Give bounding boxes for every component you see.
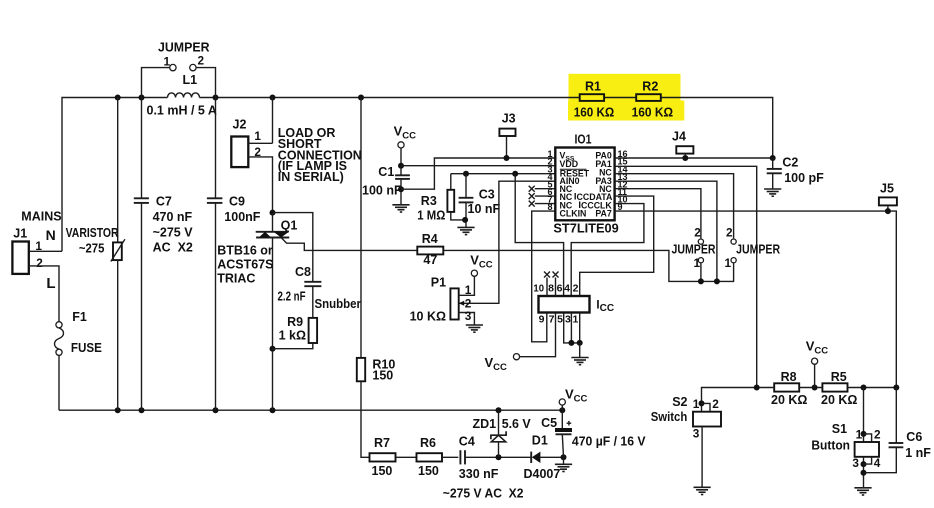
- svg-text:C9: C9: [229, 195, 245, 209]
- svg-text:N: N: [46, 227, 56, 243]
- connector J2 (load or short): [272, 98, 274, 144]
- svg-text:1: 1: [164, 55, 171, 69]
- svg-text:MAINS: MAINS: [21, 210, 61, 224]
- wire C4 to D1: [465, 456, 531, 458]
- svg-text:~275: ~275: [79, 242, 105, 256]
- svg-text:D4007: D4007: [524, 467, 561, 481]
- node jumper bus right: [714, 278, 720, 284]
- svg-text:R5: R5: [831, 370, 847, 384]
- svg-text:ACST67S: ACST67S: [217, 258, 273, 272]
- svg-text:1 nF: 1 nF: [905, 446, 931, 460]
- svg-text:F1: F1: [72, 310, 87, 324]
- svg-text:TRIAC: TRIAC: [217, 272, 255, 286]
- svg-text:9: 9: [539, 313, 545, 325]
- svg-text:Button: Button: [811, 439, 850, 453]
- P1 wiper arrow: [459, 301, 465, 306]
- wire ICC pin7 to VCC: [519, 313, 555, 357]
- svg-text:R6: R6: [420, 436, 436, 450]
- connector J4: [676, 146, 693, 153]
- svg-text:150: 150: [372, 369, 393, 383]
- wire C1 bottom to VSS row (IC pin1): [401, 158, 555, 189]
- wire AIN0 row (IC pin4) to P1 wiper: [459, 181, 555, 303]
- svg-text:ST7LITE09: ST7LITE09: [553, 221, 618, 236]
- svg-text:3: 3: [565, 313, 571, 325]
- capacitor C8 (snubber): [273, 213, 313, 282]
- ground below C3/R3: [457, 226, 474, 228]
- svg-text:C6: C6: [906, 430, 922, 444]
- button S1: [863, 388, 865, 443]
- svg-text:~275 V AC X2: ~275 V AC X2: [443, 487, 524, 501]
- svg-text:8: 8: [547, 202, 552, 212]
- node top bus R10 branch: [358, 95, 364, 101]
- svg-text:1: 1: [725, 256, 732, 270]
- inductor L1: [168, 93, 200, 98]
- svg-text:5.6 V: 5.6 V: [502, 417, 532, 431]
- wire VDD row (IC pin2): [401, 165, 555, 167]
- svg-text:C2: C2: [782, 156, 798, 170]
- node bottom bus varistor: [115, 407, 121, 413]
- resistor R10: [360, 98, 362, 358]
- node ZD1 bottom: [496, 454, 502, 460]
- svg-text:PA7: PA7: [595, 208, 612, 218]
- svg-text:C1: C1: [378, 165, 394, 179]
- left jumper (PA option): [698, 239, 703, 244]
- svg-text:4: 4: [564, 283, 570, 295]
- svg-text:P1: P1: [431, 276, 446, 290]
- node bottom bus C7: [139, 407, 145, 413]
- svg-text:J5: J5: [880, 182, 894, 196]
- svg-text:1: 1: [856, 428, 863, 442]
- resistor R9: [309, 318, 318, 343]
- svg-text:470 nF: 470 nF: [153, 210, 193, 224]
- svg-text:2: 2: [726, 225, 733, 239]
- svg-text:20 KΩ: 20 KΩ: [771, 393, 807, 407]
- wire Q1 gate: [281, 238, 417, 251]
- resistor R1: [580, 94, 604, 101]
- svg-text:3: 3: [693, 427, 700, 441]
- svg-text:IO1: IO1: [575, 133, 592, 147]
- zener ZD1: [498, 410, 500, 435]
- svg-text:R9: R9: [287, 315, 303, 329]
- node bottom bus Q1: [270, 407, 276, 413]
- svg-text:J2: J2: [233, 118, 247, 132]
- svg-text:7: 7: [549, 313, 555, 325]
- IC pin5 NC stub: [535, 188, 556, 190]
- svg-text:160 KΩ: 160 KΩ: [632, 106, 674, 120]
- varistor: [117, 98, 119, 411]
- node top bus C7: [139, 95, 145, 101]
- svg-text:10 nF: 10 nF: [468, 202, 501, 216]
- svg-text:J3: J3: [502, 112, 516, 126]
- jumper bypass of L1: [142, 68, 170, 98]
- svg-text:1 kΩ: 1 kΩ: [279, 329, 306, 343]
- svg-text:Snubber: Snubber: [315, 297, 362, 311]
- diode D1: [532, 452, 541, 463]
- resistor R7: [370, 453, 396, 461]
- svg-text:R2: R2: [642, 80, 658, 94]
- wire PA1 row (IC pin15) to R8 node: [615, 166, 757, 387]
- wire gate row to jumpers: [443, 250, 734, 281]
- power VCC above C1: [398, 142, 404, 148]
- svg-text:VARISTOR: VARISTOR: [66, 226, 119, 240]
- svg-text:R7: R7: [374, 436, 390, 450]
- capacitor C4: [459, 450, 461, 464]
- node top bus J2 branch: [270, 95, 276, 101]
- op-amp IC IO1 box: [555, 148, 614, 221]
- right jumper (PA option): [731, 239, 736, 244]
- svg-text:2: 2: [254, 145, 261, 159]
- ground below C1: [392, 204, 409, 206]
- capacitor C7: [141, 98, 143, 199]
- node top bus C9: [213, 95, 219, 101]
- capacitor C5 electrolytic: [559, 407, 565, 413]
- wire fuse to bottom bus: [58, 355, 60, 410]
- highlight background for R1 R2: [569, 74, 681, 104]
- svg-text:2: 2: [198, 54, 205, 68]
- capacitor C9: [215, 98, 217, 199]
- svg-text:150: 150: [418, 464, 439, 478]
- svg-text:150: 150: [372, 464, 393, 478]
- svg-text:5: 5: [557, 313, 563, 325]
- triac Q1: [270, 210, 276, 216]
- svg-text:1: 1: [254, 129, 261, 143]
- node RESET to ICC pin6: [512, 171, 518, 177]
- svg-text:L: L: [46, 275, 55, 292]
- wire R7-R6: [396, 456, 417, 458]
- ICC pin8 stub NC: [555, 278, 557, 297]
- svg-text:S2: S2: [672, 395, 687, 409]
- resistor R2: [636, 94, 661, 101]
- wire PA0 row (IC pin16): [615, 157, 773, 159]
- svg-text:1: 1: [693, 397, 700, 411]
- node bottom bus C9: [213, 407, 219, 413]
- svg-text:47: 47: [423, 253, 437, 267]
- fuse F1: [56, 322, 62, 328]
- wire PA7 row (IC pin9) to J5 and R5 node: [615, 211, 897, 387]
- svg-text:JUMPER: JUMPER: [158, 41, 210, 55]
- wire pin12 row to left jumper pin2: [615, 189, 701, 239]
- svg-text:C3: C3: [479, 187, 495, 201]
- wire pin14 row to right jumper pin2: [615, 174, 734, 239]
- svg-text:2: 2: [573, 283, 579, 295]
- ICC pin10 stub NC: [546, 278, 548, 297]
- svg-text:D1: D1: [532, 434, 548, 448]
- resistor R4: [417, 247, 443, 255]
- svg-text:AC X2: AC X2: [153, 241, 193, 255]
- capacitor C6: [895, 388, 897, 444]
- svg-text:C4: C4: [459, 435, 475, 449]
- wire ICCDATA (IC pin11) to ICC pin2: [580, 196, 654, 296]
- svg-text:100nF: 100nF: [224, 210, 260, 224]
- resistor R6: [417, 453, 443, 461]
- svg-text:10: 10: [533, 283, 544, 295]
- svg-text:100 nF: 100 nF: [362, 183, 402, 197]
- ground below S2: [694, 486, 711, 488]
- svg-text:S1: S1: [832, 422, 847, 436]
- svg-text:8: 8: [548, 283, 554, 295]
- svg-text:R4: R4: [422, 232, 438, 246]
- svg-text:~275 V: ~275 V: [153, 226, 194, 240]
- node jumper bus left: [698, 278, 704, 284]
- svg-text:4: 4: [874, 456, 881, 470]
- wire ICC pins 5-3-1 common: [564, 313, 580, 343]
- potentiometer P1: [450, 288, 458, 319]
- svg-text:2: 2: [36, 256, 43, 270]
- wire top AC bus: [62, 98, 168, 252]
- svg-text:6: 6: [557, 283, 563, 295]
- svg-text:C8: C8: [295, 265, 311, 279]
- svg-text:2: 2: [712, 397, 719, 411]
- ground below ICC pin1: [579, 343, 581, 358]
- capacitor C1: [398, 163, 404, 169]
- svg-text:R1: R1: [585, 80, 601, 94]
- wire bottom AC bus: [59, 409, 562, 411]
- ground below C5 node: [563, 457, 565, 464]
- svg-text:JUMPER: JUMPER: [736, 243, 780, 257]
- svg-text:1 MΩ: 1 MΩ: [417, 209, 445, 223]
- wire R6-C4: [442, 456, 458, 458]
- capacitor C2: [770, 155, 776, 161]
- svg-text:Q1: Q1: [281, 219, 298, 233]
- svg-text:330 nF: 330 nF: [459, 467, 499, 481]
- resistor R5: [822, 383, 847, 391]
- svg-text:100 pF: 100 pF: [784, 171, 824, 185]
- svg-text:FUSE: FUSE: [71, 341, 102, 355]
- wire P1 pin1 to VCC: [459, 276, 475, 295]
- svg-text:160 KΩ: 160 KΩ: [574, 106, 615, 120]
- node D1-C5: [561, 454, 567, 460]
- svg-text:1: 1: [465, 283, 472, 297]
- resistor R8: [774, 383, 799, 391]
- wire P1 pin3 to ground: [459, 313, 475, 326]
- svg-text:J1: J1: [13, 227, 27, 241]
- resistor R3: [450, 174, 452, 190]
- svg-text:JUMPER: JUMPER: [672, 243, 716, 257]
- svg-text:470 µF / 16 V: 470 µF / 16 V: [572, 435, 646, 449]
- svg-text:10 KΩ: 10 KΩ: [410, 310, 446, 324]
- svg-text:1: 1: [572, 313, 578, 325]
- ground below S1: [854, 487, 871, 489]
- svg-text:VDD: VDD: [560, 159, 579, 169]
- svg-text:R3: R3: [421, 194, 437, 208]
- svg-text:C7: C7: [156, 195, 172, 209]
- wire CLKIN (IC pin8) to ICC pin9: [532, 211, 556, 342]
- power VCC above C5: [559, 399, 565, 405]
- svg-text:2: 2: [694, 225, 701, 239]
- wire J1 pin2 to fuse: [29, 266, 59, 322]
- svg-text:Switch: Switch: [651, 410, 688, 424]
- svg-text:BTB16 or: BTB16 or: [217, 243, 273, 257]
- svg-text:L1: L1: [183, 73, 198, 87]
- power VCC above R8/R5: [812, 358, 818, 364]
- wire RESET row (IC pin3): [451, 173, 556, 175]
- connector J3: [499, 129, 515, 136]
- wire RESET to ICC pin6: [515, 174, 563, 296]
- svg-text:2.2 nF: 2.2 nF: [278, 290, 306, 304]
- wire J1 pin1 to top bus: [29, 250, 62, 252]
- svg-text:3: 3: [465, 309, 472, 323]
- svg-text:3: 3: [852, 456, 859, 470]
- connector J5: [879, 197, 897, 205]
- switch S2: [699, 400, 705, 406]
- connector J1 (mains): [12, 242, 28, 274]
- svg-text:0.1 mH / 5 A: 0.1 mH / 5 A: [147, 104, 217, 118]
- svg-text:IN SERIAL): IN SERIAL): [278, 170, 344, 184]
- IC pin7 NC stub: [535, 203, 556, 205]
- svg-text:1: 1: [694, 256, 701, 270]
- svg-text:J4: J4: [672, 130, 686, 144]
- svg-text:20 KΩ: 20 KΩ: [821, 393, 857, 407]
- capacitor C3: [463, 171, 469, 177]
- wire R8/R5 row: [702, 388, 775, 412]
- connector ICC box: [539, 296, 590, 313]
- wire ICCCLK (IC pin10) to ICC pin4: [571, 204, 644, 296]
- ground below C2: [764, 188, 781, 190]
- IC pin6 NC stub: [535, 195, 556, 197]
- wire PA3 row (IC pin13) to jumper bus: [615, 181, 717, 281]
- svg-text:ZD1: ZD1: [473, 417, 497, 431]
- svg-text:2: 2: [874, 428, 881, 442]
- svg-text:C5: C5: [541, 416, 557, 430]
- svg-text:R8: R8: [781, 370, 797, 384]
- node top bus varistor: [115, 95, 121, 101]
